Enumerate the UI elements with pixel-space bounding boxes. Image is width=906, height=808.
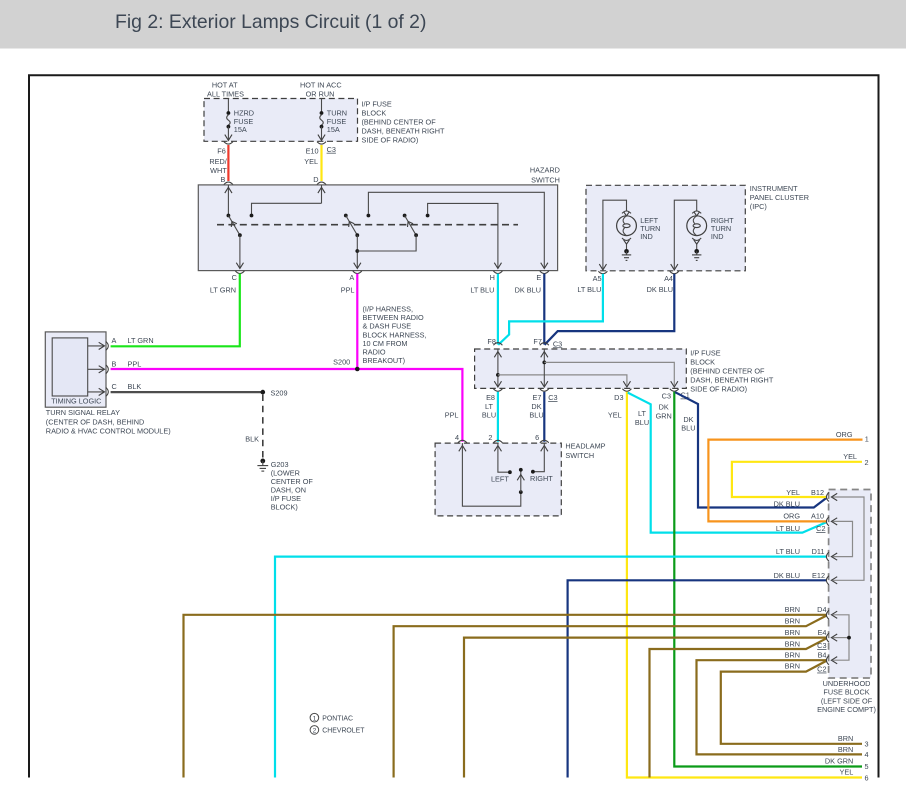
svg-text:DASH, BENEATH RIGHT: DASH, BENEATH RIGHT bbox=[690, 375, 774, 384]
headlamp internal: switch blade bbox=[517, 468, 524, 494]
wire LT BLU from page bottom to D11 bbox=[275, 557, 827, 778]
svg-text:1: 1 bbox=[313, 715, 317, 722]
connector A4 bbox=[670, 271, 679, 274]
svg-text:CHEVROLET: CHEVROLET bbox=[322, 728, 365, 735]
wire DK BLU C1 to B12 bbox=[675, 392, 827, 507]
wire label ORG / pin 1 bbox=[836, 430, 869, 443]
svg-text:BRN: BRN bbox=[785, 651, 800, 660]
svg-text:1: 1 bbox=[865, 434, 869, 443]
label I/P FUSE BLOCK (top) bbox=[362, 100, 446, 145]
svg-text:YEL: YEL bbox=[843, 452, 857, 461]
hazard switch box bbox=[198, 185, 557, 271]
connector D11 bbox=[812, 547, 838, 561]
UHFB internal bus B12 to E12 bbox=[833, 497, 864, 580]
wire YEL page pin 2 to B12 bbox=[732, 462, 862, 497]
wire YEL D3 to page pin 6 bbox=[627, 392, 862, 778]
connector E at hazard bottom bbox=[540, 271, 549, 274]
svg-text:(IPC): (IPC) bbox=[750, 202, 767, 211]
svg-text:DK BLU: DK BLU bbox=[515, 286, 541, 295]
connector A5 bbox=[598, 271, 607, 274]
wire ORG page pin 1 to A10 bbox=[708, 440, 862, 522]
connector B12 bbox=[811, 488, 837, 502]
headlamp switch box bbox=[435, 443, 561, 516]
connector C at hazard bottom bbox=[235, 271, 244, 274]
svg-text:S209: S209 bbox=[271, 388, 288, 397]
svg-text:BRN: BRN bbox=[838, 745, 853, 754]
svg-text:ORG: ORG bbox=[783, 511, 800, 520]
label INSTRUMENT PANEL CLUSTER (IPC) bbox=[750, 184, 809, 211]
svg-text:TIMING LOGIC: TIMING LOGIC bbox=[51, 397, 101, 406]
connector pin 4 bbox=[458, 440, 467, 443]
svg-text:SIDE OF RADIO): SIDE OF RADIO) bbox=[690, 384, 747, 393]
splice S209 bbox=[261, 390, 266, 395]
lamp LEFT TURN IND bbox=[617, 211, 661, 250]
wire BRN B4 to page pin 3 bbox=[721, 661, 862, 744]
IPC internal: right lamp feed bbox=[674, 200, 696, 268]
relay U1 outer box bbox=[45, 332, 106, 407]
ground below left lamp bbox=[622, 249, 631, 260]
connector B at hazard top bbox=[224, 182, 233, 185]
ground below right lamp bbox=[692, 249, 701, 260]
UHFB internal stub to E4 bbox=[833, 637, 849, 639]
connector C3 / C1 bbox=[670, 389, 679, 392]
svg-text:B: B bbox=[221, 175, 226, 184]
svg-text:F8: F8 bbox=[487, 337, 496, 346]
fuse block internal: bus to D3 bbox=[498, 375, 631, 387]
wire BRN B4 to page pin 4 bbox=[697, 660, 863, 754]
connector H at hazard bottom bbox=[493, 271, 502, 274]
label G203 location bbox=[271, 460, 314, 512]
relay pin B bbox=[88, 360, 117, 374]
connector D3 bbox=[622, 389, 631, 392]
svg-text:(CENTER OF DASH, BEHIND: (CENTER OF DASH, BEHIND bbox=[46, 417, 145, 426]
wire BRN from page bottom to E4 (second) bbox=[650, 638, 827, 777]
wire PPL hazard A to S200 bbox=[356, 274, 358, 369]
svg-text:WHT: WHT bbox=[210, 166, 227, 175]
svg-text:I/P FUSE: I/P FUSE bbox=[362, 100, 392, 109]
svg-text:BRN: BRN bbox=[785, 628, 800, 637]
legend item 1 PONTIAC bbox=[310, 713, 353, 722]
title band bbox=[0, 0, 906, 49]
svg-text:2: 2 bbox=[313, 728, 317, 735]
connector F7 / C3 bbox=[540, 343, 549, 346]
svg-text:BREAKOUT): BREAKOUT) bbox=[363, 356, 406, 365]
wire BRN from page bottom to D4 bbox=[184, 615, 827, 778]
svg-text:HOT IN ACC: HOT IN ACC bbox=[300, 80, 342, 89]
lamp RIGHT TURN IND bbox=[687, 211, 734, 250]
hazard internal: switch pole 1 bbox=[227, 214, 254, 269]
svg-text:A10: A10 bbox=[811, 512, 824, 521]
svg-text:E12: E12 bbox=[812, 571, 825, 580]
wire RED/WHT fuse F6 to hazard B bbox=[227, 145, 229, 181]
svg-text:DK: DK bbox=[531, 402, 541, 411]
relay pin A bbox=[88, 336, 117, 350]
UHFB internal bus D4 to B4 bbox=[833, 615, 849, 660]
svg-text:H: H bbox=[490, 273, 495, 282]
wire label YEL / pin 6 bbox=[840, 767, 869, 782]
svg-text:F7: F7 bbox=[533, 337, 542, 346]
svg-text:6: 6 bbox=[865, 774, 869, 783]
svg-text:YEL: YEL bbox=[304, 157, 318, 166]
hazard internal: link to E output bbox=[368, 192, 548, 268]
svg-text:GRN: GRN bbox=[656, 411, 672, 420]
ground G203 bbox=[257, 459, 268, 472]
wire LT GRN hazard C to relay A bbox=[111, 274, 240, 347]
I/P fuse block box (middle) bbox=[475, 349, 687, 388]
wire label BRN / pin 4 bbox=[838, 745, 869, 759]
svg-text:ENGINE COMPT): ENGINE COMPT) bbox=[817, 705, 876, 714]
svg-text:BLU: BLU bbox=[482, 411, 496, 420]
wire DK BLU from page bottom to E12 bbox=[568, 580, 827, 777]
svg-text:3: 3 bbox=[865, 740, 869, 749]
svg-text:YEL: YEL bbox=[786, 488, 800, 497]
label UNDERHOOD FUSE BLOCK location bbox=[817, 679, 876, 714]
svg-text:C3: C3 bbox=[553, 339, 562, 348]
svg-text:LT GRN: LT GRN bbox=[210, 286, 236, 295]
svg-text:A: A bbox=[112, 336, 117, 345]
svg-text:LT BLU: LT BLU bbox=[577, 285, 601, 294]
svg-text:BLU: BLU bbox=[681, 424, 695, 433]
svg-text:B12: B12 bbox=[811, 488, 824, 497]
fuse HZRD FUSE 15A bbox=[225, 99, 254, 141]
svg-text:DASH, BENEATH RIGHT: DASH, BENEATH RIGHT bbox=[362, 127, 446, 136]
svg-text:PPL: PPL bbox=[341, 286, 355, 295]
svg-text:D3: D3 bbox=[614, 393, 623, 402]
svg-text:RADIO & HVAC CONTROL MODULE): RADIO & HVAC CONTROL MODULE) bbox=[46, 426, 171, 435]
connector B4 / C2 bbox=[817, 651, 837, 674]
svg-text:UNDERHOOD: UNDERHOOD bbox=[823, 679, 871, 688]
svg-text:HAZARD: HAZARD bbox=[530, 166, 560, 175]
label HOT IN ACC OR RUN bbox=[300, 80, 342, 98]
svg-text:D4: D4 bbox=[817, 605, 826, 614]
svg-text:LT BLU: LT BLU bbox=[470, 286, 494, 295]
connector E12 bbox=[812, 571, 837, 585]
svg-text:BLU: BLU bbox=[635, 418, 649, 427]
svg-text:BLOCK: BLOCK bbox=[362, 109, 387, 118]
fuse block internal: bus to C1 bbox=[544, 362, 678, 387]
svg-text:C: C bbox=[112, 382, 117, 391]
connector D4 bbox=[817, 605, 837, 619]
wire LT BLU E8 to headlamp pin 2 bbox=[497, 392, 499, 442]
svg-text:PPL: PPL bbox=[128, 360, 142, 369]
svg-text:ORG: ORG bbox=[836, 430, 853, 439]
wire DK BLU IPC A4 to F7 bbox=[545, 274, 675, 345]
svg-text:YEL: YEL bbox=[840, 767, 854, 776]
headlamp internal: LEFT contact to pin 2 bbox=[491, 443, 512, 483]
svg-text:RIGHT: RIGHT bbox=[530, 474, 553, 483]
hazard internal: B entry line bbox=[225, 185, 232, 214]
UHFB internal bus A10 to D11 bbox=[833, 521, 853, 556]
svg-text:C3: C3 bbox=[548, 393, 557, 402]
svg-text:D: D bbox=[313, 175, 318, 184]
svg-text:OR RUN: OR RUN bbox=[306, 89, 335, 98]
svg-text:HOT AT: HOT AT bbox=[212, 80, 238, 89]
svg-text:LT GRN: LT GRN bbox=[128, 336, 154, 345]
wire DK BLU E7 to headlamp pin 6 bbox=[543, 392, 545, 442]
label HAZARD SWITCH bbox=[530, 166, 560, 185]
svg-text:BLOCK): BLOCK) bbox=[271, 502, 298, 511]
label I/P HARNESS note bbox=[363, 305, 427, 366]
svg-text:15A: 15A bbox=[234, 125, 247, 134]
svg-text:SWITCH: SWITCH bbox=[565, 451, 594, 460]
hazard internal: D entry path bbox=[252, 185, 326, 214]
relay timing logic inner box bbox=[52, 338, 87, 396]
fuse block internal: F7-E7 feed bbox=[541, 349, 548, 387]
svg-text:BRN: BRN bbox=[785, 662, 800, 671]
label TURN SIGNAL RELAY location bbox=[46, 408, 171, 435]
svg-text:DK BLU: DK BLU bbox=[647, 285, 673, 294]
fuse block internal: F8-E8 feed bbox=[494, 349, 501, 387]
svg-text:A: A bbox=[349, 273, 354, 282]
svg-text:C2: C2 bbox=[816, 524, 825, 533]
svg-text:DK BLU: DK BLU bbox=[774, 499, 800, 508]
connector F6 bbox=[224, 142, 233, 145]
svg-text:HEADLAMP: HEADLAMP bbox=[565, 441, 605, 450]
svg-text:PANEL CLUSTER: PANEL CLUSTER bbox=[750, 193, 809, 202]
wire LT BLU hazard H to F8 bbox=[497, 274, 499, 345]
wire PPL relay B through S200 to headlamp pin 4 bbox=[111, 369, 463, 442]
wire YEL fuse E10 to hazard D bbox=[320, 145, 322, 181]
wire LT BLU D3 to A10/C2 bbox=[628, 393, 827, 533]
IPC internal: left lamp feed bbox=[603, 200, 627, 268]
svg-text:B4: B4 bbox=[818, 651, 827, 660]
label I/P FUSE BLOCK (middle) bbox=[690, 348, 774, 393]
headlamp internal: pin 4 common path bbox=[459, 443, 521, 506]
svg-text:PPL: PPL bbox=[445, 411, 459, 420]
svg-text:E10: E10 bbox=[306, 146, 319, 155]
svg-text:Fig 2: Exterior Lamps Circuit: Fig 2: Exterior Lamps Circuit (1 of 2) bbox=[115, 11, 426, 33]
label HOT AT ALL TIMES bbox=[207, 80, 244, 98]
relay pin C bbox=[88, 382, 117, 396]
wire BLK relay C to S209 bbox=[111, 391, 263, 393]
hazard internal: gang dashed line bbox=[217, 224, 518, 226]
svg-text:BRN: BRN bbox=[785, 616, 800, 625]
svg-text:A5: A5 bbox=[593, 274, 602, 283]
svg-text:(BEHIND CENTER OF: (BEHIND CENTER OF bbox=[362, 118, 437, 127]
svg-text:(BEHIND CENTER OF: (BEHIND CENTER OF bbox=[690, 366, 765, 375]
connector F8 bbox=[493, 343, 502, 346]
connector pin 2 bbox=[493, 440, 502, 443]
svg-text:LT: LT bbox=[485, 402, 494, 411]
wire BLK dashed S209 to G203 bbox=[262, 395, 264, 458]
svg-text:B: B bbox=[112, 360, 117, 369]
splice S200 bbox=[355, 367, 360, 372]
svg-text:C2: C2 bbox=[817, 665, 826, 674]
connector E10 / C3 bbox=[317, 142, 326, 145]
svg-text:BLK: BLK bbox=[245, 434, 259, 443]
wire BRN from page bottom to D4 (second) bbox=[394, 615, 827, 777]
svg-text:(LEFT SIDE OF: (LEFT SIDE OF bbox=[821, 696, 873, 705]
UHFB internal junction bbox=[847, 636, 851, 640]
label HEADLAMP SWITCH bbox=[565, 441, 605, 460]
svg-text:C3: C3 bbox=[662, 391, 671, 400]
hazard internal: link to H output bbox=[428, 203, 502, 268]
svg-text:4: 4 bbox=[865, 750, 869, 759]
wire BRN from page bottom to E4 bbox=[464, 638, 827, 778]
fuse TURN FUSE 15A bbox=[318, 99, 347, 141]
svg-text:S200: S200 bbox=[333, 358, 350, 367]
svg-text:2: 2 bbox=[865, 458, 869, 467]
IPC A4 exit arrow bbox=[671, 264, 678, 270]
svg-text:E: E bbox=[536, 273, 541, 282]
svg-text:YEL: YEL bbox=[608, 411, 622, 420]
wire label BRN / pin 3 bbox=[838, 734, 869, 749]
svg-text:5: 5 bbox=[865, 762, 869, 771]
svg-text:C3: C3 bbox=[327, 145, 336, 154]
headlamp internal: RIGHT contact to pin 6 bbox=[530, 443, 553, 483]
svg-text:FUSE BLOCK: FUSE BLOCK bbox=[823, 688, 869, 697]
svg-text:2: 2 bbox=[488, 433, 492, 442]
svg-text:LT BLU: LT BLU bbox=[776, 547, 800, 556]
svg-text:SWITCH: SWITCH bbox=[531, 175, 560, 184]
wire DK BLU hazard E to F7 bbox=[543, 274, 545, 345]
svg-text:4: 4 bbox=[455, 433, 459, 442]
I/P fuse block box (top) bbox=[204, 99, 358, 142]
svg-text:C3: C3 bbox=[817, 641, 826, 650]
connector E7 / C3 bbox=[540, 389, 549, 392]
connector D at hazard top bbox=[317, 182, 326, 185]
svg-text:LEFT: LEFT bbox=[491, 474, 509, 483]
connector E8 bbox=[493, 389, 502, 392]
svg-text:BLU: BLU bbox=[529, 411, 543, 420]
svg-text:DK: DK bbox=[659, 403, 669, 412]
hazard internal: switch pole 3 bbox=[357, 214, 429, 251]
wire label DK GRN / pin 5 bbox=[825, 756, 869, 771]
svg-text:BRN: BRN bbox=[785, 605, 800, 614]
svg-text:C: C bbox=[232, 273, 237, 282]
hazard internal: switch pole 2 bbox=[344, 214, 370, 269]
svg-text:DK GRN: DK GRN bbox=[825, 756, 853, 765]
wire DK GRN C3 to page pin 5 bbox=[674, 392, 862, 767]
svg-text:IND: IND bbox=[711, 232, 724, 241]
svg-text:ALL TIMES: ALL TIMES bbox=[207, 89, 244, 98]
connector E4 / C3 bbox=[817, 628, 837, 650]
svg-text:DK BLU: DK BLU bbox=[774, 571, 800, 580]
svg-text:6: 6 bbox=[535, 433, 539, 442]
wire label YEL / pin 2 bbox=[843, 452, 868, 467]
IPC A5 exit arrow bbox=[599, 264, 606, 270]
legend item 2 CHEVROLET bbox=[310, 726, 365, 735]
svg-text:I/P FUSE: I/P FUSE bbox=[690, 348, 720, 357]
connector A at hazard bottom bbox=[353, 271, 362, 274]
underhood fuse block box bbox=[829, 490, 871, 679]
svg-text:BLOCK: BLOCK bbox=[690, 357, 715, 366]
svg-text:BRN: BRN bbox=[785, 639, 800, 648]
svg-text:E4: E4 bbox=[818, 628, 827, 637]
svg-text:PONTIAC: PONTIAC bbox=[322, 715, 353, 722]
svg-text:D11: D11 bbox=[812, 547, 825, 556]
connector pin 6 bbox=[540, 440, 549, 443]
svg-text:IND: IND bbox=[640, 232, 653, 241]
svg-text:A4: A4 bbox=[664, 274, 673, 283]
svg-text:BLK: BLK bbox=[128, 382, 142, 391]
IPC box bbox=[586, 185, 745, 270]
wire LT BLU IPC A5 to F8 bbox=[498, 274, 603, 345]
svg-text:LT BLU: LT BLU bbox=[776, 524, 800, 533]
svg-text:TURN SIGNAL RELAY: TURN SIGNAL RELAY bbox=[46, 408, 120, 417]
svg-text:15A: 15A bbox=[327, 125, 340, 134]
svg-text:BRN: BRN bbox=[838, 734, 853, 743]
connector A10 / C2 bbox=[811, 512, 837, 534]
svg-text:LT: LT bbox=[638, 409, 647, 418]
svg-text:SIDE OF RADIO): SIDE OF RADIO) bbox=[362, 136, 419, 145]
svg-text:F6: F6 bbox=[217, 146, 226, 155]
svg-text:INSTRUMENT: INSTRUMENT bbox=[750, 184, 798, 193]
